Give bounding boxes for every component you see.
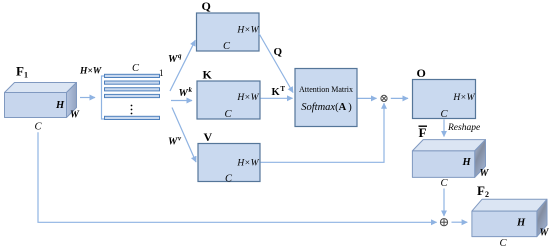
svg-text:H: H: [462, 157, 472, 168]
svg-text:KT: KT: [272, 85, 286, 98]
svg-text:H: H: [516, 218, 526, 229]
svg-text:Q: Q: [274, 46, 283, 58]
svg-text:Wk: Wk: [179, 86, 193, 99]
svg-text:Reshape: Reshape: [447, 123, 480, 133]
svg-text:H×W: H×W: [236, 93, 259, 103]
svg-text:H×W: H×W: [452, 93, 475, 103]
svg-text:F1: F1: [16, 64, 28, 80]
svg-text:W: W: [70, 110, 80, 121]
svg-text:C: C: [500, 238, 508, 249]
svg-text:W: W: [540, 228, 550, 239]
svg-text:K: K: [203, 68, 213, 82]
svg-text:Softmax(A ): Softmax(A ): [301, 102, 352, 113]
svg-text:H×W: H×W: [236, 26, 259, 36]
svg-text:V: V: [204, 130, 213, 144]
svg-text:Wq: Wq: [168, 52, 182, 65]
svg-text:Wv: Wv: [168, 135, 182, 148]
svg-text:C: C: [223, 41, 231, 52]
svg-text:W: W: [480, 168, 490, 179]
svg-text:Q: Q: [202, 0, 211, 13]
svg-text:Attention Matrix: Attention Matrix: [299, 85, 353, 94]
svg-text:H×W: H×W: [79, 67, 102, 77]
svg-text:F2: F2: [477, 183, 489, 199]
svg-text:H: H: [55, 100, 65, 111]
svg-text:1: 1: [159, 68, 164, 78]
svg-text:C: C: [441, 109, 449, 120]
svg-text:C: C: [225, 109, 233, 120]
svg-text:O: O: [417, 66, 426, 80]
svg-text:C: C: [132, 63, 140, 74]
svg-text:H×W: H×W: [236, 159, 259, 169]
svg-text:C: C: [225, 174, 233, 185]
svg-text:C: C: [441, 178, 449, 189]
svg-text:F: F: [419, 125, 427, 140]
svg-text:C: C: [35, 122, 43, 133]
